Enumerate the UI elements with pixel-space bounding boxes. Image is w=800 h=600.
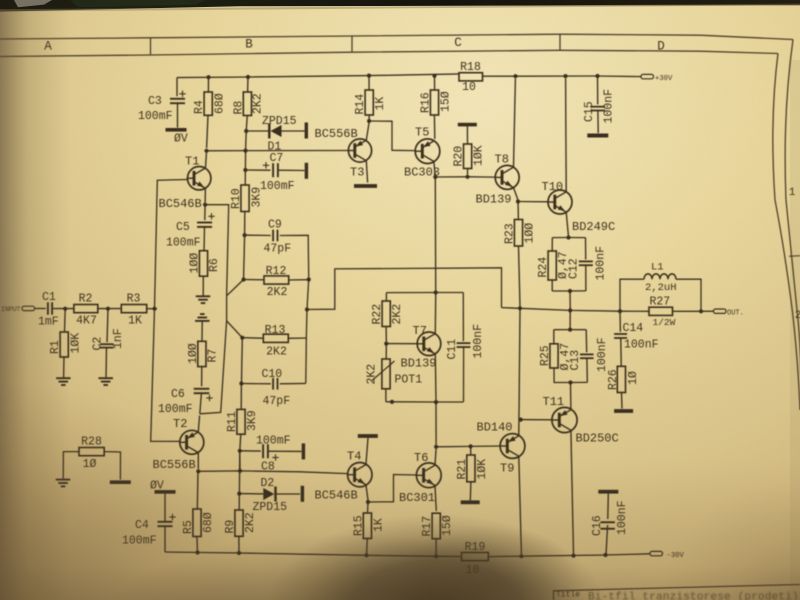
resistor R13 xyxy=(263,334,288,342)
node output at bracket column xyxy=(568,308,572,312)
title block border xyxy=(554,585,800,600)
wire R14 to T3 emitter node xyxy=(368,115,370,119)
wire R3 to input node xyxy=(147,308,157,310)
ground vbar for C7 xyxy=(305,163,308,179)
wire T11 collector up to bracket xyxy=(570,385,572,410)
wire R13 right stub xyxy=(288,337,307,339)
wire T7 collector up xyxy=(434,295,436,334)
node T6 collector xyxy=(434,445,438,449)
node R8/D1 xyxy=(244,129,248,133)
wire R9 to rail xyxy=(238,536,240,553)
ground bar above T4 collector xyxy=(358,434,378,438)
transistor T6 BC301 xyxy=(416,463,441,488)
wire C8 row xyxy=(240,450,261,452)
wire C7 to ground bar xyxy=(278,169,305,171)
resistor R27 xyxy=(649,307,673,315)
wire bracket left down through R24 xyxy=(551,238,553,251)
capacitor C4 electrolytic xyxy=(164,494,166,521)
transistor T8 BD139 xyxy=(495,165,519,189)
wire C2 to ground xyxy=(105,348,108,378)
wire R8 to D1 node xyxy=(246,116,247,132)
wire inv-ground to R7 xyxy=(201,322,203,342)
wire T1 emitter to feedback column xyxy=(205,205,229,296)
wire T10 emitter down xyxy=(566,212,568,235)
paper grain xyxy=(0,0,1,1)
potentiometer POT1 xyxy=(385,344,387,359)
zener diode D2 ZPD15 xyxy=(263,488,274,500)
node T1 emitter xyxy=(203,203,207,207)
wire T5 collector up xyxy=(433,117,436,141)
frame right outer border xyxy=(785,40,800,376)
wire output rail xyxy=(502,308,650,312)
wire L1 branch right xyxy=(676,279,701,311)
wire bar to R20 xyxy=(466,126,468,144)
resistor R7 xyxy=(198,341,206,366)
capacitor C2 xyxy=(107,309,108,343)
resistor R25 xyxy=(550,344,558,368)
wire R23 column xyxy=(517,202,519,220)
node D2 row xyxy=(237,492,241,496)
ground under C2 xyxy=(98,377,113,379)
transistor T5 BC303 xyxy=(415,139,440,164)
node output at C14 xyxy=(618,309,622,313)
connector INPUT terminal xyxy=(22,306,35,310)
ground vbar for D2 xyxy=(301,486,304,502)
resistor R10 xyxy=(241,185,249,212)
wire node to T10 base xyxy=(518,201,548,203)
wire R1 to ground xyxy=(63,357,65,378)
wire R16 to T5 collector xyxy=(433,115,435,139)
frame divider C|D xyxy=(559,34,561,50)
wire T9 collector down to rail xyxy=(519,457,522,555)
transistor T7 BD139 xyxy=(417,332,441,356)
wire R21 to ground bar xyxy=(469,482,472,501)
wire R26 to ground bar xyxy=(621,393,624,409)
capacitor C8 electrolytic horizontal xyxy=(262,444,264,458)
wire right column R12 to R13 to C10 xyxy=(307,280,309,310)
wire bracket to out rail xyxy=(569,291,571,309)
wire T6 collector up xyxy=(435,449,436,465)
transistor T9 BD140 xyxy=(500,434,525,459)
node on rail at R8 xyxy=(246,75,250,79)
ground under R1 xyxy=(56,377,71,379)
wire T5 emitter down xyxy=(434,162,435,176)
node C10 row xyxy=(239,381,243,385)
node T3 emitter / T5 base xyxy=(367,119,371,123)
resistor R19 in rail xyxy=(462,553,489,561)
capacitor C16 xyxy=(607,494,610,519)
wire R23 down to out rail xyxy=(519,246,521,307)
wire C9 to right column xyxy=(280,235,309,277)
wire R6 to ground xyxy=(202,276,204,295)
wire T2 emitter up xyxy=(198,416,199,432)
node R2/C2 xyxy=(106,307,110,311)
wire C7 node to R10 xyxy=(244,170,246,185)
wire pot to box bottom xyxy=(385,389,387,402)
node rail at R15 xyxy=(364,553,368,557)
dark photo top band xyxy=(0,0,800,12)
wire R9 top node up from T4 base row xyxy=(239,451,241,471)
ground inverted above R7 xyxy=(195,320,210,322)
wire L1 branch left xyxy=(620,279,644,311)
wire down to R5 xyxy=(196,471,199,509)
wire R21 column xyxy=(470,446,472,455)
node box bottom at T7 emitter xyxy=(434,400,438,404)
node C7 row xyxy=(243,168,247,172)
capacitor C12 xyxy=(585,238,587,260)
wire T8 collector up to rail xyxy=(514,79,516,168)
ground 3-line left of R28 xyxy=(56,479,71,481)
wire R5 to rail xyxy=(196,537,199,553)
node row at R9 top xyxy=(238,469,242,473)
resistor R8 xyxy=(247,77,249,92)
wire T3 node to T5 base xyxy=(369,121,415,151)
node on T3 base row at R10 column xyxy=(243,149,247,153)
node C13 top bracket xyxy=(568,328,572,332)
wire C8 node down to D2 node xyxy=(238,451,240,492)
ground vbar for C8 xyxy=(302,443,305,459)
wire out rail to C13 bracket xyxy=(569,310,571,327)
wire T5 emitter row to T8 base xyxy=(435,176,495,178)
frame divider B|C xyxy=(351,36,353,52)
capacitor C6 electrolytic xyxy=(194,388,210,390)
wire T6 collector row to T9 base xyxy=(436,445,500,448)
resistor R17 xyxy=(432,513,440,539)
resistor R15 xyxy=(363,513,371,539)
ground bar under C15 xyxy=(587,134,608,138)
node R13 right row xyxy=(305,307,309,311)
ground bar above R20 xyxy=(458,123,477,127)
wire T4 emitter node to T6 base xyxy=(368,475,416,503)
wire T2 collector row to T4 base xyxy=(198,471,347,474)
wire T7 base xyxy=(386,343,417,345)
wire C12 bottom bracket xyxy=(552,290,586,292)
wire T11 base xyxy=(521,419,552,421)
connector -30V terminal xyxy=(650,551,663,555)
resistor R20 xyxy=(464,144,472,169)
wire feedback column lower part xyxy=(200,296,227,414)
wire bias box bottom xyxy=(386,401,463,403)
resistor R4 xyxy=(207,77,209,92)
resistor R5 xyxy=(193,509,201,537)
node input to bases xyxy=(152,307,156,311)
resistor R22 xyxy=(382,301,390,327)
node rail at R9 xyxy=(237,551,241,555)
wire D1 to ground bar xyxy=(282,130,305,132)
wire C10 node down to R11 xyxy=(240,384,242,410)
transistor T11 BD250C xyxy=(552,407,577,432)
wire D2 to ground bar xyxy=(276,493,300,495)
node rail at R5 xyxy=(195,550,199,554)
wire T4 emitter to R15 xyxy=(367,502,370,513)
wire T1 collector xyxy=(205,153,208,168)
node at R20 xyxy=(465,175,469,179)
node R12 left xyxy=(242,277,246,281)
wire R7 to C6 xyxy=(201,367,203,387)
wire box bottom down to T6 collector node xyxy=(435,402,437,445)
capacitor C13 xyxy=(585,330,588,353)
wire C1 to R2 xyxy=(52,308,74,310)
node bracket bottom xyxy=(568,289,572,293)
capacitor C11 branch xyxy=(462,293,464,342)
node on rail at R14 xyxy=(367,74,371,78)
wire C12 top bracket xyxy=(552,237,585,239)
resistor R9 xyxy=(235,510,243,536)
node T8 emitter / T10 base / R23 xyxy=(516,199,520,203)
node box bottom at pot xyxy=(390,400,394,404)
wire +30V top rail xyxy=(177,74,459,78)
wire T4 emitter down xyxy=(366,486,368,501)
wire T7 emitter down xyxy=(434,354,437,400)
connector OUT terminal xyxy=(714,309,727,313)
wire input to C1 xyxy=(35,308,46,310)
wire R12 right stub xyxy=(289,279,309,281)
wire R15 to rail xyxy=(366,539,369,556)
wire input node up to T1 base xyxy=(155,180,188,309)
resistor R11 xyxy=(237,409,245,434)
node R12 right xyxy=(307,277,311,281)
wire box left down to R22 xyxy=(385,293,387,301)
node rail at C16 xyxy=(603,553,607,557)
bottom vignette xyxy=(0,460,800,600)
node T2 collector xyxy=(196,469,200,473)
node on rail at T8 collector column xyxy=(513,74,517,78)
resistor R26 xyxy=(617,366,625,392)
bottom-left corner darkening xyxy=(0,380,260,600)
wire R13 left stub xyxy=(242,337,263,340)
inductor L1 xyxy=(644,274,676,279)
wire R28 left to ground xyxy=(63,452,79,479)
zener diode D1 ZPD15 xyxy=(271,125,282,137)
wire R10 to C9 node xyxy=(244,212,246,234)
bottom-right corner darkening xyxy=(660,480,800,600)
wire T1 emitter down xyxy=(204,189,206,203)
wire node to D1 xyxy=(246,130,269,132)
node rail at T9 collector xyxy=(519,554,523,558)
left edge darkening xyxy=(0,0,70,600)
node on rail at R4 xyxy=(206,75,210,79)
wire T9 emitter up to out rail xyxy=(519,310,520,435)
node rail at R17 xyxy=(434,554,438,558)
node T1 collector / T3 base drive xyxy=(204,149,208,153)
resistor R23 xyxy=(514,220,522,247)
capacitor C15 xyxy=(597,76,599,105)
resistor R6 xyxy=(199,251,207,277)
wire T2 collector down xyxy=(197,453,199,469)
wire -30V bottom rail xyxy=(165,552,462,557)
right edge strip xyxy=(790,60,800,600)
wire node to C7 xyxy=(245,169,270,171)
transistor T2 BC556B xyxy=(180,430,204,454)
wire C13 top bracket xyxy=(554,329,586,331)
wire C9 row xyxy=(245,234,271,236)
ground bar under R21 xyxy=(461,500,480,504)
node C8 row xyxy=(238,449,242,453)
wire T8 emitter to node xyxy=(514,188,518,200)
capacitor C3 electrolytic xyxy=(176,78,178,97)
wire C8 to ground bar xyxy=(268,450,302,452)
wire C10 to right column xyxy=(280,382,306,384)
wire C6 to T2 emitter node xyxy=(200,393,202,414)
wire R12/R13 left column to C10 node xyxy=(241,338,244,382)
capacitor C5 electrolytic xyxy=(204,205,206,221)
frame divider A|B xyxy=(150,38,152,55)
resistor R21 xyxy=(467,455,475,482)
node on rail at R16 xyxy=(432,74,436,78)
node R13 left xyxy=(240,336,244,340)
wire R13 node down... actually column continues xyxy=(306,310,307,384)
node T10 emitter on bracket xyxy=(566,235,570,239)
wire input node down to T2 base xyxy=(151,309,180,442)
ground bar 0V under C3 xyxy=(166,128,187,132)
node at R21 xyxy=(469,444,473,448)
wire column down to R12 node xyxy=(244,235,245,277)
ground bar 0V above C4 xyxy=(155,490,176,494)
transistor T4 BC546B xyxy=(348,463,372,487)
wire column D1 to C7 node xyxy=(245,131,248,151)
wire C13 bottom bracket xyxy=(554,368,587,383)
wire R22 to T7 base node xyxy=(385,327,387,342)
node T11 base on T9 emitter column xyxy=(519,418,523,422)
pot wiper diagonal xyxy=(372,361,395,381)
wire D2 node down to R9 xyxy=(238,494,240,510)
node C9 row xyxy=(243,233,247,237)
node on rail at T10 collector column xyxy=(563,74,567,78)
resistor R1 xyxy=(64,309,67,332)
ground vbar for D1 xyxy=(305,123,308,139)
resistor R24 xyxy=(548,251,556,280)
resistor R14 xyxy=(368,76,370,90)
node on rail at C15 xyxy=(595,74,599,78)
wire T6 emitter down to R17 xyxy=(435,486,436,511)
wire T3 emitter up xyxy=(366,123,369,140)
node bracket bottom at T11 collector xyxy=(568,380,572,384)
wire R2 to R3 xyxy=(98,308,122,310)
diagonal feedback column to R13 xyxy=(227,321,243,338)
wire T3 collector down xyxy=(366,161,367,183)
drawing frame: top letter band xyxy=(0,34,793,39)
resistor R18 in rail xyxy=(459,73,483,81)
node T5 emitter row xyxy=(433,175,437,179)
wire R4 to T1 collector xyxy=(207,115,208,148)
wire C10 row xyxy=(241,383,270,385)
diagonal R12 to feedback column xyxy=(227,280,244,296)
resistor R12 xyxy=(264,276,289,284)
capacitor C7 electrolytic horizontal xyxy=(272,163,274,177)
capacitor C10 xyxy=(272,378,274,390)
transistor T10 BD249C xyxy=(548,190,572,214)
wire bracket left down to R25 xyxy=(553,330,555,344)
wire T1 collector node to T3 base row xyxy=(207,150,349,152)
resistor R3 xyxy=(121,305,146,313)
node output at R23/T9 column xyxy=(518,306,522,310)
wire R12 left stub xyxy=(244,279,264,281)
wire R28 right to 0V bar xyxy=(104,452,120,480)
node T7 base xyxy=(384,342,388,346)
node C1/R2/R1 xyxy=(63,307,67,311)
resistor R2 xyxy=(74,305,98,313)
resistor R16 xyxy=(434,76,436,90)
wire C5 to R6 xyxy=(203,227,206,251)
node T4 emitter xyxy=(366,500,370,504)
camera shadow blob bottom center xyxy=(266,514,606,600)
wire R11 to C8 node xyxy=(239,434,242,449)
capacitor C9 xyxy=(272,230,274,242)
wire T5 emitter column down to bias box xyxy=(434,177,436,291)
ground bar right of R28 xyxy=(110,480,131,484)
wire R13 right row to corner and up to drive line xyxy=(307,268,502,310)
ground under R6 xyxy=(196,295,211,297)
ground bar above C16 xyxy=(598,490,618,494)
wire T10 collector up to rail xyxy=(565,79,568,192)
connector +30V terminal xyxy=(641,74,654,78)
capacitor C1 xyxy=(47,302,49,314)
ground bar under T3 xyxy=(354,184,377,188)
frame right inner border xyxy=(773,54,800,411)
node output at R27 right xyxy=(699,309,703,313)
frame row tick xyxy=(789,255,800,258)
transistor T3 BC556B xyxy=(348,139,371,162)
node bias box top at T7 collector xyxy=(434,290,438,294)
resistor R28 xyxy=(79,448,104,456)
wire R17 to rail xyxy=(435,539,437,557)
capacitor C14 xyxy=(619,311,621,332)
wire T11 emitter down to rail xyxy=(571,431,574,555)
wire bar to T4 collector xyxy=(366,438,368,464)
wire bias box top xyxy=(386,292,463,294)
wire D2 row xyxy=(239,493,263,495)
node rail at T11 emitter xyxy=(571,554,575,558)
ground bar under R26 xyxy=(614,409,633,413)
transistor T1 BC546B xyxy=(188,167,211,190)
wire R20 to node xyxy=(467,169,469,175)
